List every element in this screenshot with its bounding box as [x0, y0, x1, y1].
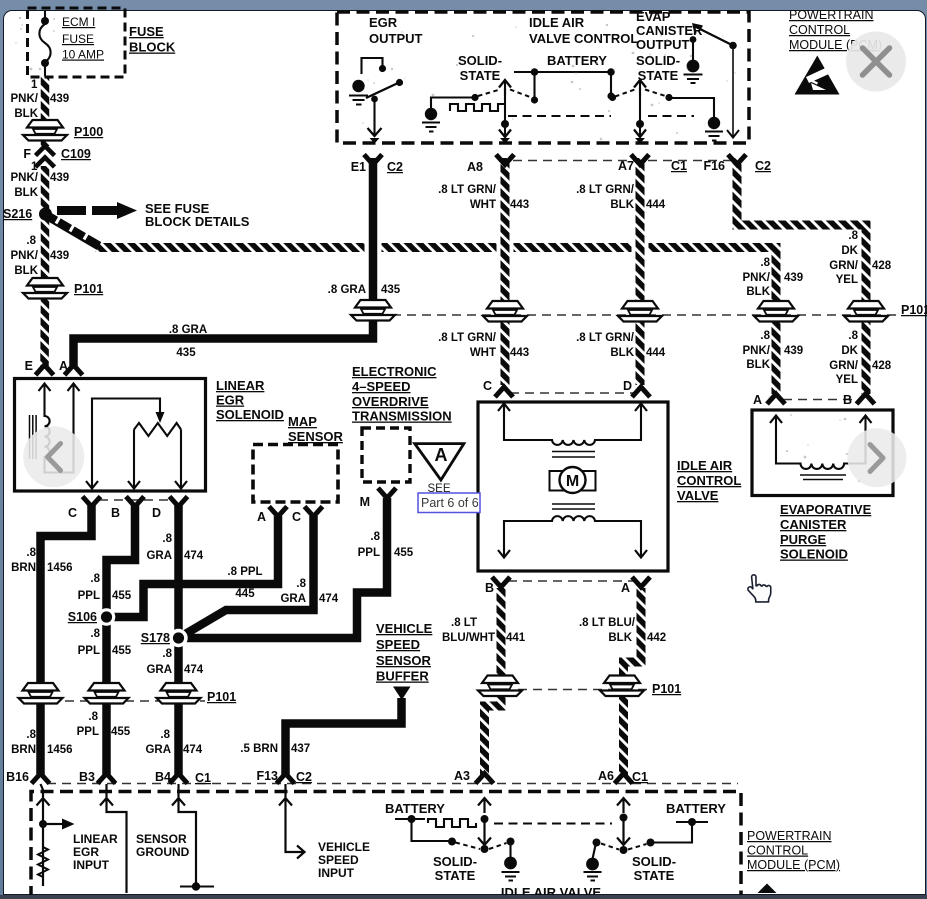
arrowhead triangles above top pins	[370, 138, 380, 144]
wire hatched S216 to P101	[41, 219, 50, 281]
fuse dots	[41, 17, 49, 25]
pin A7 chevron	[631, 155, 649, 165]
ESD symbol triangle (top right)	[795, 56, 840, 95]
IAC bottom core lines	[552, 504, 595, 509]
EGR driver switch arm	[366, 83, 398, 98]
LINEAR EGR wiper arrowhead (solid)	[156, 412, 165, 423]
pin C chevron (IAC top)	[495, 387, 513, 397]
pin C chevron (LINEAR bottom)	[83, 497, 101, 507]
node P101 dashed line (mid row)	[518, 689, 648, 691]
node S216 with arrow SEE FUSE BLOCK DETAILS	[39, 208, 52, 221]
LINEAR EGR potentiometer feed	[92, 399, 160, 488]
wire white casing for A8 wire over bus	[497, 235, 514, 262]
wire hatched P100 to C109	[41, 138, 50, 146]
EGR driver L-wire	[362, 58, 383, 74]
node P101 dashed line (bottom-left row)	[50, 700, 205, 702]
ESD symbol triangle (bottom right, cut)	[758, 884, 777, 894]
fuse ECM I wire and squiggle	[39, 11, 50, 76]
pin E chevron	[36, 365, 54, 375]
pin A chevron (EVAP)	[767, 394, 785, 404]
EGR driver output arrowhead	[368, 128, 382, 136]
EVAP core lines	[800, 475, 846, 480]
node dashed line between top PCM pins	[513, 160, 731, 162]
A8 driver node arrow up	[504, 82, 506, 96]
pin B3 chevron	[98, 774, 116, 784]
wire hatched A8 .8 LT GRN/WHT 443	[501, 158, 510, 385]
VSS buffer output triangle	[393, 687, 411, 701]
wire white casing PPL 445 over D wire	[160, 577, 270, 592]
bottom PCM: dashed control line	[494, 823, 612, 825]
connector P101 row B16	[19, 683, 63, 704]
connector P100	[23, 120, 67, 141]
box top PCM (dashed)	[337, 12, 749, 143]
bottom PCM: A3 square wave	[428, 819, 476, 827]
wire hatched IAC pin A .8 LT BLU/BLK 442 to A6	[624, 588, 642, 776]
A8 driver dashed throws	[478, 90, 530, 98]
node dashed line IAC pins C-D	[510, 392, 634, 394]
connector P101 (left)	[23, 278, 67, 299]
LINEAR EGR coil circuit (pin E arrow, coil, to pin A arrow)	[45, 385, 74, 473]
bottom PCM: LINEAR EGR INPUT branch	[37, 784, 50, 886]
EVAP solenoid coil circuit	[776, 416, 866, 469]
connector 443 inline	[483, 301, 527, 322]
node P101 dashed split line (top row)	[392, 314, 898, 316]
wire solid D .8 GRA 474 (LINEAR pin D through S178 to B4)	[174, 503, 183, 776]
wire hatched diagonal from S216	[46, 215, 99, 246]
node S106	[98, 608, 116, 626]
A7 driver dots	[609, 94, 616, 101]
bottom PCM: branch arrow right from B16	[46, 823, 62, 825]
bottom PCM: VEHICLE SPEED INPUT path	[279, 784, 305, 859]
EVAP arrowheads	[770, 416, 872, 424]
EVAP output switch diagonal	[694, 26, 733, 46]
wire hatched bus .8 PNK/BLK 439 (S216 to EVAP pin A)	[95, 248, 776, 395]
wire solid C .8 BRN 1456 (LINEAR pin C to B16)	[41, 503, 92, 776]
A8 driver dots	[471, 94, 478, 101]
bottom PCM: A3 dashed throws	[456, 843, 507, 850]
symbol triangle A (see part 6)	[415, 444, 464, 480]
wire hatched fuse block to P100	[41, 76, 50, 122]
connector P101 row 442	[600, 676, 644, 697]
bottom PCM: A6 ground hatch	[584, 872, 602, 881]
connector C109 double chevron	[36, 146, 55, 167]
IAC arrowheads	[498, 404, 647, 412]
cursor hand pointer	[748, 575, 771, 602]
EGR driver junction dots and ground dot	[379, 65, 386, 72]
node S178	[169, 629, 187, 647]
wire hatched C109 to S216	[41, 166, 50, 209]
wire white casing for A7 wire over bus	[632, 235, 649, 262]
bottom PCM: A6 stem and down arrow	[617, 820, 630, 845]
box IDLE AIR CONTROL VALVE	[478, 402, 668, 571]
scan noise speckles	[15, 17, 860, 482]
bottom PCM dots	[39, 820, 47, 828]
connector P101 row 441	[478, 676, 522, 697]
bottom PCM: branch arrowhead solid	[62, 819, 75, 830]
A7 driver ground hatch	[705, 132, 723, 141]
wire solid B .8 PPL 455 (LINEAR pin B to S106 to B3)	[107, 503, 136, 776]
bottom PCM: battery 2 feed	[652, 822, 708, 843]
LINEAR EGR resistor end legs	[134, 430, 181, 488]
bottom PCM: A6 driver arrow up	[617, 798, 630, 813]
pin E1 chevron	[364, 155, 382, 165]
wire hatched F16 to DK GRN/YEL 428 (to EVAP pin B)	[737, 158, 866, 394]
box LINEAR EGR SOLENOID	[15, 379, 206, 492]
button next (right chevron)	[848, 428, 907, 487]
bottom PCM: battery 1 feed	[395, 819, 450, 841]
pin B chevron (LINEAR bottom)	[126, 497, 144, 507]
node dashed line IAC pins B-A	[508, 580, 634, 582]
LINEAR EGR resistor zigzag	[134, 423, 181, 436]
EGR driver ground hatch	[349, 96, 368, 105]
button previous (left chevron)	[23, 426, 84, 487]
A8 driver square wave	[450, 104, 505, 111]
pin F16 chevron	[728, 155, 746, 165]
IAC bottom coil circuit	[504, 516, 641, 557]
A7 driver node arrow up	[639, 82, 641, 96]
bottom PCM: A6 ground stem	[593, 845, 596, 859]
pin B4 chevron	[170, 774, 188, 784]
box ELECTRONIC 4-SPEED OVERDRIVE TRANSMISSION (dashed)	[362, 428, 410, 482]
bottom PCM: A3 stem and down arrow	[478, 822, 491, 845]
dashed control line in top PCM box	[508, 115, 611, 117]
EVAP output dots	[729, 42, 737, 50]
pin D chevron (LINEAR bottom)	[170, 497, 188, 507]
pin B chevron (EVAP)	[857, 394, 875, 404]
box EVAPORATIVE CANISTER PURGE SOLENOID	[752, 410, 893, 496]
wire solid .8 GRA 474 branch (S178 to MAP pin C)	[179, 516, 314, 638]
pin B chevron (IAC bottom)	[492, 577, 510, 587]
LINEAR EGR core lines	[30, 415, 37, 459]
wire hatched A7 .8 LT GRN/BLK 444	[636, 158, 645, 385]
A8 driver ground hatch	[422, 123, 440, 132]
pin A3 chevron	[476, 774, 494, 784]
wire hatched P101 to LINEAR EGR pin E	[40, 295, 49, 366]
A8 driver output stem	[504, 88, 506, 135]
EVAP ground hatch	[684, 75, 703, 84]
EVAP output arrowhead up-left	[694, 25, 703, 34]
bottom PCM: linear egr input resistor	[38, 847, 48, 877]
connector 444 inline	[618, 301, 662, 322]
node dashed line EVAP pins A-B	[783, 399, 858, 401]
pin A chevron (LINEAR)	[65, 365, 83, 375]
battery bus top	[514, 71, 613, 73]
bottom PCM: A3 driver arrow up	[478, 798, 491, 813]
IAC motor brackets	[550, 471, 596, 491]
pin A chevron (MAP)	[269, 507, 287, 517]
pin A6 chevron	[615, 774, 633, 784]
connector C2/GRA435 inline	[351, 300, 395, 321]
A8 driver feed from ground	[431, 98, 472, 109]
node dashed line bottom pin row	[47, 783, 738, 785]
pin A chevron (IAC bottom)	[632, 577, 650, 587]
battery bus drops	[535, 72, 612, 99]
bottom PCM: B4 ground bar	[180, 885, 214, 887]
pin M chevron (TRANS)	[378, 488, 396, 498]
bottom PCM: B4 ground path	[172, 784, 196, 884]
IAC top coil circuit	[504, 405, 641, 445]
node dashed line LINEAR EGR pins C-B-D	[99, 499, 172, 501]
box FUSE BLOCK (dashed)	[28, 8, 126, 77]
EVAP output drop to ground	[692, 41, 694, 60]
wire solid .8 PPL 455 branch (S178 to TRANS pin M)	[179, 498, 388, 638]
A7 driver wire to ground	[671, 98, 714, 117]
EGR driver output stem	[373, 99, 375, 134]
bottom PCM: A3 ground hatch	[502, 872, 520, 881]
connector P101 row B4	[157, 683, 201, 704]
LINEAR EGR arrowheads	[39, 384, 80, 392]
connector P101 row B3	[85, 683, 129, 704]
A7 driver output stem	[639, 88, 641, 135]
bottom PCM: SENSOR GROUND path	[100, 784, 127, 893]
IAC top core lines	[552, 452, 595, 458]
button close (X)	[846, 32, 906, 92]
IAC motor circle	[560, 467, 586, 493]
pin F13 chevron	[277, 774, 295, 784]
battery dots	[531, 68, 539, 76]
link Part 6 of 6	[418, 493, 480, 513]
bottom PCM: A3 ground stem	[509, 844, 511, 858]
box bottom PCM (dashed)	[31, 792, 741, 899]
A7 driver dashed throws	[615, 90, 667, 97]
pin C chevron (MAP)	[305, 507, 323, 517]
pin B16 chevron	[32, 774, 50, 784]
bottom PCM: A6 dashed throws	[601, 844, 647, 850]
box MAP SENSOR (dashed)	[253, 445, 338, 503]
EVAP sense line down	[732, 48, 734, 136]
pin D chevron (IAC top)	[632, 387, 650, 397]
wire hatched IAC pin B .8 LT BLU/WHT 441 to A3	[485, 588, 502, 776]
wire solid .8 PPL 445 (S106 to MAP pin A)	[107, 516, 279, 617]
connector 439 inline	[754, 301, 798, 322]
pin A8 chevron	[496, 155, 514, 165]
connector 428 inline	[844, 301, 888, 322]
wire solid E1/C2 .8 GRA 435 down and left to LINEAR EGR pin A	[74, 158, 374, 366]
wire solid .5 BRN 437 (VSS buffer to F13)	[286, 698, 402, 776]
wire white casing for E1 wire over bus	[365, 235, 382, 262]
